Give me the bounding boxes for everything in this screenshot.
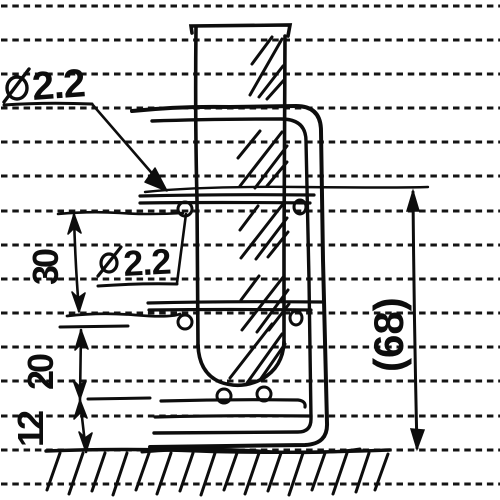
svg-text:20: 20 (20, 354, 61, 390)
bar 1 right hole (294, 200, 306, 214)
dim 20 dimension line (80, 330, 81, 399)
dim 20 top reference line (60, 326, 128, 327)
ruled line 4 (1, 107, 500, 110)
ruled line 8 (1, 244, 500, 247)
dim 12 dimension line (80, 400, 86, 452)
label phi2.2 top: leader line (92, 104, 163, 186)
ruled line 1 (1, 5, 500, 8)
dim 30 top arrow (68, 214, 81, 234)
bar 1 bottom edge (140, 201, 310, 205)
ruled line 7 (1, 210, 500, 213)
dim 12 top reference line (88, 398, 150, 399)
svg-text:(68): (68) (365, 297, 412, 372)
bar 3 left hole (217, 389, 231, 403)
label phi2.2 mid: phi symbol (98, 247, 121, 276)
bar 3 right hole (257, 387, 271, 401)
bar 1 top edge (140, 195, 314, 196)
dim 68 extension line (145, 187, 428, 192)
ruled line 11 (1, 346, 500, 349)
ruled line 12 (1, 380, 500, 383)
tube hatching (230, 37, 289, 383)
svg-text:12: 12 (10, 411, 51, 447)
ruled line 3 (1, 73, 500, 76)
dim 30 bottom arrow (72, 292, 85, 312)
ruled line 6 (1, 175, 500, 178)
bar 2 top edge (148, 302, 322, 303)
ground line overdraw (142, 449, 360, 453)
bracket outer outline (132, 106, 327, 447)
tube right wall (284, 36, 285, 343)
dim 20 top arrow (75, 330, 88, 350)
dim 12 bottom arrow (79, 432, 92, 452)
ground line (46, 450, 390, 453)
svg-text:30: 30 (25, 249, 66, 285)
ruled line 2 (1, 39, 500, 42)
label phi2.2 top: phi symbol (4, 69, 29, 102)
label phi2.2 mid: underline (98, 284, 177, 286)
tube top cap (191, 25, 290, 36)
dim 12 top arrow (74, 400, 87, 419)
bar 1 left hole (178, 202, 192, 216)
dim 68 dimension line (413, 192, 417, 448)
ruled line 10 (1, 312, 500, 315)
ground hatching (47, 453, 388, 495)
tube bottom arc (198, 342, 284, 385)
ruled line 14 (1, 449, 500, 452)
dim 20 bottom arrow (73, 380, 86, 399)
dim 30 top reference line (58, 212, 183, 214)
dim 20 upper squiggle line (67, 314, 180, 317)
ruled line 5 (1, 141, 500, 144)
label phi2.2 mid: leader line (177, 214, 186, 283)
label phi2.2 top: leader arrowhead (145, 168, 167, 191)
svg-text:2.2: 2.2 (122, 241, 171, 284)
bar 3 bottom edge (155, 416, 309, 417)
bar 3 top edge (161, 400, 305, 407)
bar 2 left hole (178, 315, 192, 329)
tube left wall (196, 27, 198, 347)
label phi2.2 top: underline (4, 103, 92, 105)
dim 68 top arrow (407, 191, 419, 211)
dim 30 dimension line (74, 215, 79, 311)
bar 2 bottom edge (149, 308, 311, 312)
bar 2 right hole (290, 311, 302, 325)
ruled line 9 (1, 278, 500, 281)
dim 68 bottom arrow (411, 429, 424, 449)
bracket inner outline (152, 119, 311, 433)
ruled line 13 (1, 415, 500, 418)
ruled line 15 (1, 483, 500, 486)
